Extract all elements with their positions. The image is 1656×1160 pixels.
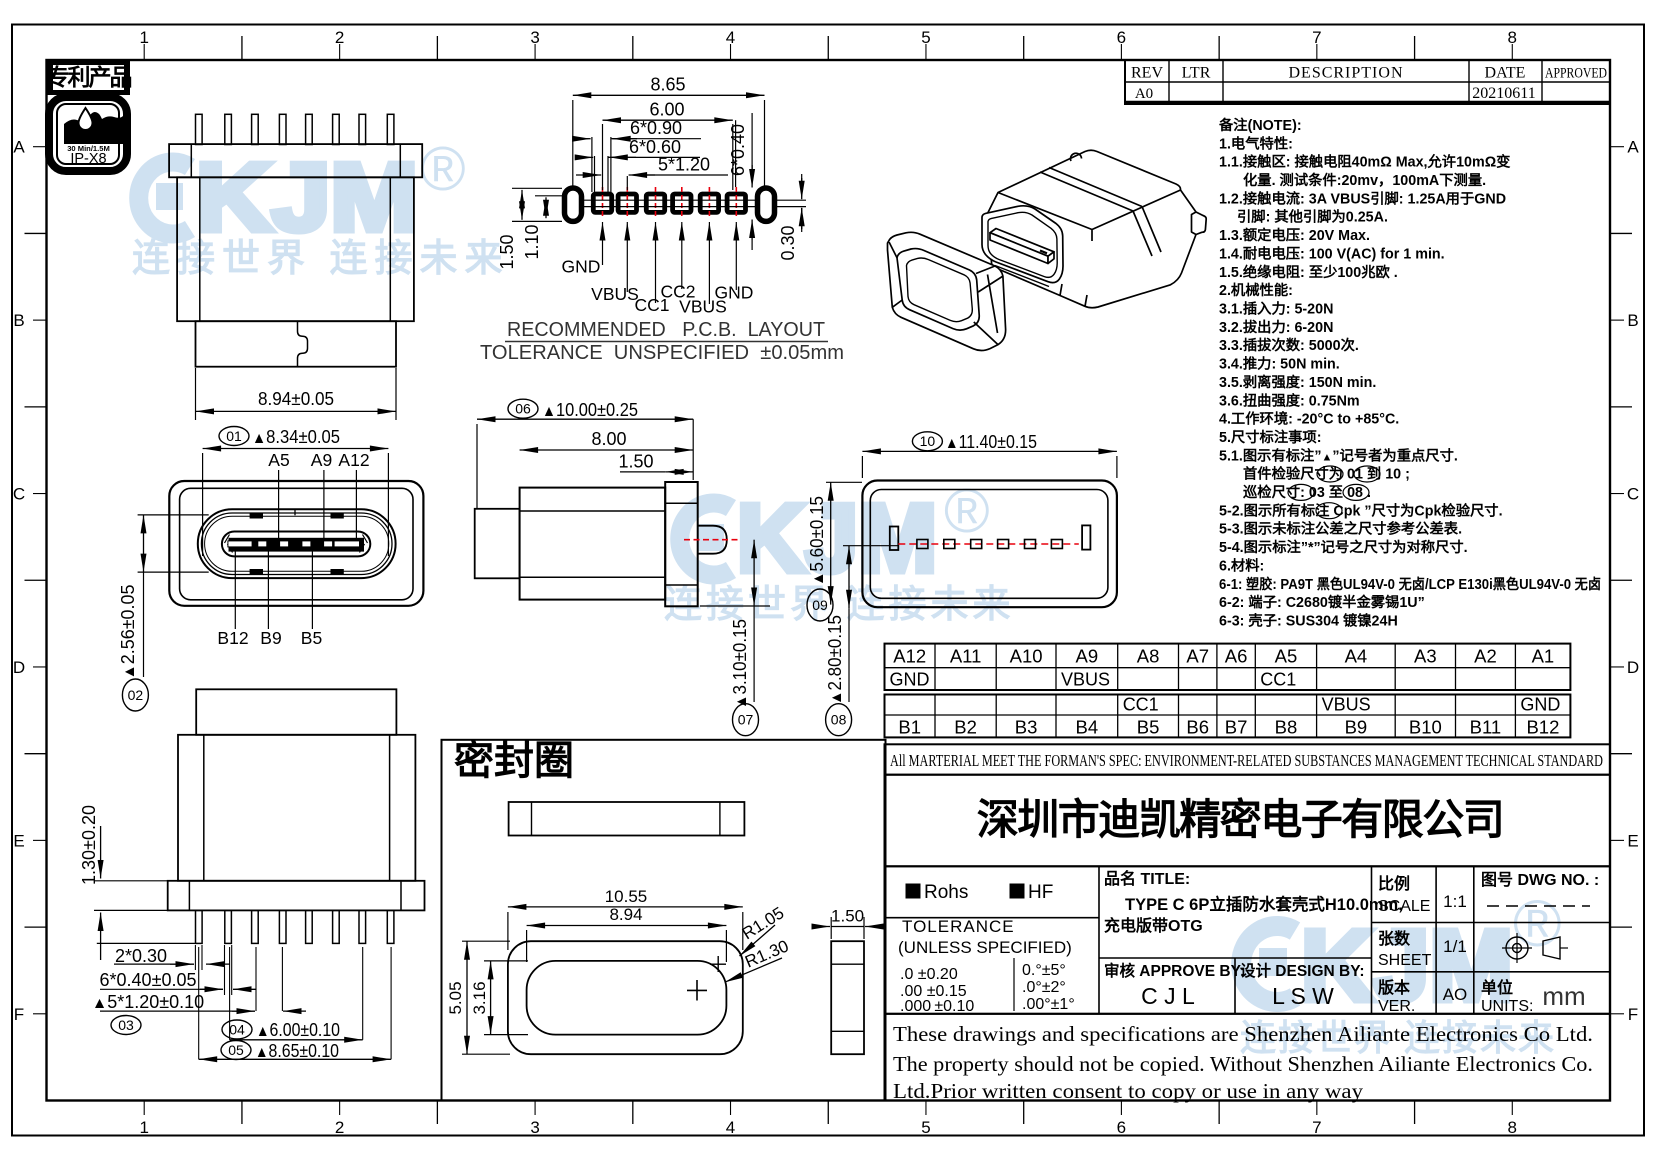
- svg-text:B7: B7: [1225, 717, 1248, 738]
- leader R1.30: [725, 936, 792, 982]
- svg-text:All MARTERIAL MEET THE FORMAN': All MARTERIAL MEET THE FORMAN'S SPEC: EN…: [890, 751, 1603, 770]
- svg-text:1.2.接触电流: 3A VBUS引脚: 1.25A用于GN: 1.2.接触电流: 3A VBUS引脚: 1.25A用于GND: [1219, 189, 1506, 207]
- svg-text:B: B: [1627, 311, 1638, 330]
- svg-text:5.1.图示有标注”▲”记号者为重点尺寸.: 5.1.图示有标注”▲”记号者为重点尺寸.: [1219, 446, 1458, 464]
- svg-text:HF: HF: [1028, 882, 1053, 903]
- seal center crosses: [687, 956, 726, 1001]
- svg-text:▲8.65±0.10: ▲8.65±0.10: [255, 1041, 339, 1061]
- svg-text:B3: B3: [1015, 717, 1038, 738]
- top view: flange: [169, 144, 422, 177]
- svg-text:B6: B6: [1186, 717, 1209, 738]
- svg-text:CC1: CC1: [1260, 670, 1296, 690]
- svg-text:C: C: [13, 485, 25, 504]
- svg-text:APPROVED: APPROVED: [1545, 66, 1607, 82]
- svg-text:F: F: [1628, 1005, 1638, 1024]
- svg-text:5-2.图示所有标注 Cpk ”尺寸为Cpk检验尺寸.: 5-2.图示所有标注 Cpk ”尺寸为Cpk检验尺寸.: [1219, 501, 1503, 519]
- watermark KJM logo top-left: [132, 135, 510, 280]
- revision table: [1125, 60, 1610, 104]
- svg-text:6-2: 端子: C2680镀半金雾锡1U”: 6-2: 端子: C2680镀半金雾锡1U”: [1219, 593, 1425, 611]
- svg-text:TYPE C 6P立插防水套壳式H10.0mm,: TYPE C 6P立插防水套壳式H10.0mm,: [1125, 894, 1403, 914]
- svg-text:.000 ±0.10: .000 ±0.10: [900, 998, 974, 1015]
- svg-text:C J L: C J L: [1141, 983, 1195, 1009]
- bottom view: main body: [178, 735, 415, 881]
- bottom view: 8 pins down: [196, 910, 394, 943]
- svg-text:B10: B10: [1409, 717, 1442, 738]
- svg-text:1:1: 1:1: [1443, 892, 1467, 911]
- dimension 05 ▲8.65±0.10: [199, 947, 391, 1061]
- seal ring section box: [442, 740, 886, 1101]
- svg-text:2: 2: [335, 28, 344, 47]
- 3D isometric: plug rim and tongue: [982, 206, 1063, 287]
- dimension 0.30 vertical: [778, 174, 802, 261]
- svg-text:图号 DWG NO. :: 图号 DWG NO. :: [1481, 871, 1599, 889]
- svg-text:D: D: [1627, 658, 1639, 677]
- svg-text:10: 10: [920, 433, 936, 449]
- dimension 10 ▲11.40±0.15: [862, 432, 1117, 478]
- version cell: [1377, 978, 1467, 1015]
- sheet cell: [1378, 929, 1467, 969]
- dimension 5*1.20: [576, 155, 728, 191]
- svg-text:▲11.40±0.15: ▲11.40±0.15: [945, 432, 1037, 452]
- PCB layout: 6 square pads with red centerlines: [593, 187, 745, 219]
- svg-text:▲6.00±0.10: ▲6.00±0.10: [256, 1020, 340, 1040]
- svg-text:6: 6: [1117, 1118, 1126, 1137]
- svg-text:0.30: 0.30: [778, 225, 798, 260]
- svg-text:1/1: 1/1: [1443, 937, 1467, 956]
- dimension 1.50 vertical (pcb left): [497, 188, 562, 269]
- dimension 3.16 (seal): [470, 961, 528, 1035]
- svg-text:VER.: VER.: [1378, 998, 1415, 1015]
- svg-text:B9: B9: [1345, 717, 1368, 738]
- svg-text:4: 4: [726, 28, 735, 47]
- units cell: [1481, 978, 1586, 1015]
- svg-text:1.10: 1.10: [522, 224, 542, 259]
- svg-text:3.4.推力: 50N min.: 3.4.推力: 50N min.: [1219, 355, 1340, 373]
- svg-text:04: 04: [229, 1021, 245, 1037]
- svg-text:A12: A12: [893, 646, 926, 667]
- svg-text:VBUS: VBUS: [1061, 670, 1110, 690]
- top view: 8 SMT pins: [196, 114, 394, 144]
- svg-text:8.65: 8.65: [650, 74, 685, 94]
- dimension 09 ▲5.60±0.15: [807, 482, 862, 621]
- svg-text:A5: A5: [268, 450, 289, 470]
- svg-text:A1: A1: [1532, 646, 1555, 667]
- svg-text:B9: B9: [260, 628, 281, 648]
- pin assignment table: [885, 644, 1571, 738]
- svg-text:▲8.34±0.05: ▲8.34±0.05: [252, 427, 340, 447]
- svg-text:8.00: 8.00: [591, 429, 626, 449]
- svg-text:AO: AO: [1443, 985, 1468, 1004]
- svg-text:These drawings and specificati: These drawings and specifications are Sh…: [893, 1022, 1593, 1046]
- svg-text:1.50: 1.50: [497, 234, 517, 269]
- top view: bottom shield block with seam: [196, 321, 397, 367]
- svg-text:A0: A0: [1135, 86, 1153, 102]
- svg-text:RECOMMENDED P.C.B. LAYOUT: RECOMMENDED P.C.B. LAYOUT: [507, 319, 825, 341]
- seal ring front view: [508, 941, 743, 1054]
- svg-text:TOLERANCE UNSPECIFIED ±0.05m: TOLERANCE UNSPECIFIED ±0.05mm: [480, 342, 844, 364]
- svg-text:A8: A8: [1137, 646, 1160, 667]
- svg-text:化量. 测试条件:20mv，100mA下测量.: 化量. 测试条件:20mv，100mA下测量.: [1243, 171, 1486, 189]
- svg-text:备注(NOTE):: 备注(NOTE):: [1218, 116, 1302, 134]
- dimension 6*0.40 vertical (pcb pad width): [728, 113, 752, 250]
- title cell 品名 TITLE: [1104, 869, 1403, 935]
- svg-text:审核 APPROVE BY:: 审核 APPROVE BY:: [1104, 961, 1245, 980]
- 3D isometric: connector body: [986, 150, 1206, 308]
- dimension 07 ▲3.10±0.15: [700, 540, 770, 736]
- dimension 06 ▲10.00±0.25: [477, 399, 693, 509]
- svg-text:6.材料:: 6.材料:: [1219, 556, 1264, 574]
- svg-text:3.16: 3.16: [470, 981, 489, 1014]
- svg-text:6*0.40: 6*0.40: [728, 124, 748, 176]
- dimension 01 ▲8.34±0.05: [203, 427, 389, 557]
- svg-text:(UNLESS SPECIFIED): (UNLESS SPECIFIED): [898, 938, 1072, 957]
- svg-text:B12: B12: [217, 628, 248, 648]
- bottom view: top block: [196, 689, 396, 735]
- svg-text:®: ®: [944, 477, 990, 546]
- svg-text:B2: B2: [954, 717, 977, 738]
- svg-text:比例: 比例: [1378, 874, 1410, 893]
- svg-text:.00°±1°: .00°±1°: [1022, 996, 1075, 1013]
- svg-text:6*0.90: 6*0.90: [630, 118, 682, 138]
- svg-text:▲10.00±0.25: ▲10.00±0.25: [542, 400, 638, 420]
- svg-text:03: 03: [118, 1017, 134, 1033]
- patent product label 专利产品: [47, 59, 132, 95]
- svg-text:A6: A6: [1225, 646, 1248, 667]
- svg-text:A5: A5: [1275, 646, 1298, 667]
- svg-text:4: 4: [726, 1118, 735, 1137]
- svg-text:引脚: 其他引脚为0.25A.: 引脚: 其他引脚为0.25A.: [1237, 208, 1388, 226]
- svg-text:A7: A7: [1186, 646, 1209, 667]
- svg-text:®: ®: [420, 135, 466, 204]
- svg-text:3.6.扭曲强度: 0.75Nm: 3.6.扭曲强度: 0.75Nm: [1219, 391, 1360, 409]
- svg-text:A10: A10: [1010, 646, 1043, 667]
- design by cell: [1240, 961, 1365, 1009]
- projection symbol: [1502, 933, 1568, 963]
- svg-text:▲2.56±0.05: ▲2.56±0.05: [118, 585, 138, 680]
- svg-text:GND: GND: [1520, 695, 1560, 715]
- svg-text:E: E: [13, 831, 24, 850]
- svg-text:A: A: [13, 138, 25, 157]
- svg-text:GND: GND: [890, 670, 930, 690]
- svg-text:5.05: 5.05: [446, 981, 465, 1014]
- dimension 02 ▲2.56±0.05 (front view height): [118, 515, 209, 711]
- svg-text:GND: GND: [715, 283, 754, 303]
- svg-text:6*0.40±0.05: 6*0.40±0.05: [100, 970, 197, 990]
- svg-text:D: D: [13, 658, 25, 677]
- dimension 8.00 (side): [520, 429, 694, 450]
- PCB pad signal arrows and labels: [562, 222, 754, 317]
- notes text block 备注(NOTE): [1218, 116, 1601, 630]
- top view: body: [177, 177, 414, 321]
- oval 03: [111, 1016, 141, 1035]
- svg-text:设计 DESIGN BY:: 设计 DESIGN BY:: [1240, 961, 1365, 980]
- company name box 深圳市迪凯精密电子有限公司: [885, 775, 1611, 867]
- svg-text:3: 3: [530, 1118, 539, 1137]
- svg-text:TOLERANCE: TOLERANCE: [902, 917, 1015, 936]
- svg-text:C: C: [1627, 485, 1639, 504]
- PCB layout: left oval pad: [565, 188, 582, 221]
- back view: slots and pins with red centerline: [890, 525, 1091, 550]
- svg-text:1: 1: [139, 1118, 148, 1137]
- dwg no cell: [1481, 871, 1599, 906]
- svg-text:A2: A2: [1474, 646, 1497, 667]
- svg-text:8: 8: [1508, 1118, 1517, 1137]
- svg-text:05: 05: [228, 1042, 244, 1058]
- svg-text:6: 6: [1117, 28, 1126, 47]
- front view: cavity: [198, 509, 396, 578]
- svg-text:01: 01: [226, 428, 242, 444]
- svg-text:首件检验尺寸为 01 到 10 ;: 首件检验尺寸为 01 到 10 ;: [1243, 465, 1410, 483]
- dimension 8.94 (seal): [527, 905, 727, 962]
- dimension 8.94±0.05 (top view width): [196, 368, 397, 420]
- svg-text:5: 5: [921, 1118, 930, 1137]
- svg-text:3: 3: [530, 28, 539, 47]
- svg-text:UNITS:: UNITS:: [1481, 998, 1533, 1015]
- svg-text:Ltd.Prior written consent to c: Ltd.Prior written consent to copy or use…: [893, 1079, 1364, 1103]
- front view: A5 A9 A12 leader labels: [268, 450, 369, 540]
- dimension 1.50 (side flange): [618, 419, 693, 480]
- svg-text:3.2.拔出力: 6-20N: 3.2.拔出力: 6-20N: [1219, 318, 1333, 336]
- dimension 6*0.40±0.05: [100, 945, 256, 995]
- svg-text:5*1.20: 5*1.20: [658, 155, 710, 175]
- svg-text:8: 8: [1508, 28, 1517, 47]
- seal small side view right: [831, 941, 864, 1054]
- svg-text:0.°±5°: 0.°±5°: [1022, 962, 1066, 979]
- svg-text:专利产品: 专利产品: [47, 64, 132, 90]
- watermark KJM logo title block: [1240, 886, 1562, 1058]
- title block grid: [885, 866, 1611, 1014]
- svg-text:A3: A3: [1414, 646, 1437, 667]
- side view: SMT pin with red centerline: [684, 526, 741, 554]
- disclaimer text: [885, 1014, 1611, 1103]
- svg-text:7: 7: [1312, 1118, 1321, 1137]
- svg-text:B8: B8: [1275, 717, 1298, 738]
- svg-text:B11: B11: [1470, 717, 1502, 738]
- dimension 5.05 (seal): [446, 941, 510, 1054]
- svg-text:B12: B12: [1526, 717, 1559, 738]
- svg-text:08: 08: [831, 712, 847, 728]
- dimension 6*0.60: [579, 137, 700, 192]
- svg-text:4.工作环境: -20°C to +85°C.: 4.工作环境: -20°C to +85°C.: [1219, 410, 1399, 428]
- svg-text:连接世界 连接未来: 连接世界 连接未来: [132, 238, 510, 280]
- svg-text:B5: B5: [1137, 717, 1160, 738]
- svg-text:密封圈: 密封圈: [454, 739, 574, 783]
- svg-text:1.50: 1.50: [831, 907, 864, 926]
- Rohs / HF cell: [906, 882, 1053, 903]
- svg-text:A11: A11: [950, 646, 982, 667]
- svg-text:3.5.剥离强度: 150N min.: 3.5.剥离强度: 150N min.: [1219, 373, 1376, 391]
- PCB layout: right oval pad: [758, 188, 775, 221]
- svg-text:07: 07: [738, 712, 754, 728]
- svg-text:DATE: DATE: [1485, 65, 1526, 82]
- svg-text:1.4.耐电电压: 100 V(AC) for 1 min.: 1.4.耐电电压: 100 V(AC) for 1 min.: [1219, 244, 1445, 262]
- svg-text:▲2.80±0.15: ▲2.80±0.15: [825, 615, 845, 705]
- svg-text:mm: mm: [1542, 981, 1585, 1011]
- svg-text:SCALE: SCALE: [1378, 898, 1430, 915]
- svg-text:1.50: 1.50: [618, 451, 653, 471]
- svg-text:B4: B4: [1076, 717, 1099, 738]
- svg-text:1.1.接触区: 接触电阻40mΩ Max,允许10mΩ变: 1.1.接触区: 接触电阻40mΩ Max,允许10mΩ变: [1219, 153, 1511, 171]
- svg-text:5.尺寸标注事项:: 5.尺寸标注事项:: [1219, 428, 1321, 446]
- PCB layout: pad connecting centerline: [582, 200, 807, 206]
- svg-text:B5: B5: [301, 628, 322, 648]
- svg-text:1.3.额定电压: 20V Max.: 1.3.额定电压: 20V Max.: [1219, 226, 1370, 244]
- svg-text:5: 5: [921, 28, 930, 47]
- svg-text:单位: 单位: [1481, 978, 1513, 997]
- svg-text:.0 ±0.20: .0 ±0.20: [900, 966, 958, 983]
- front view: B12 B9 B5 leader labels: [217, 550, 322, 648]
- svg-text:6.00: 6.00: [649, 100, 684, 120]
- watermark KJM logo center: [664, 477, 1015, 626]
- svg-text:06: 06: [515, 401, 531, 417]
- svg-text:10.55: 10.55: [605, 887, 648, 906]
- svg-text:2*0.30: 2*0.30: [115, 946, 167, 966]
- dimension 1.50 (seal side): [812, 907, 883, 939]
- svg-text:2.机械性能:: 2.机械性能:: [1219, 281, 1293, 299]
- dimension 08 ▲2.80±0.15: [825, 546, 898, 736]
- 3D isometric: seal gasket ring: [888, 232, 1006, 350]
- bottom view: flange: [168, 881, 425, 911]
- svg-text:A4: A4: [1345, 646, 1368, 667]
- svg-text:09: 09: [812, 597, 828, 613]
- svg-text:张数: 张数: [1378, 929, 1411, 948]
- tolerance cell: [898, 917, 1075, 1015]
- dimension 2*0.30: [97, 943, 230, 970]
- svg-text:5-3.图示未标注公差之尺寸参考公差表.: 5-3.图示未标注公差之尺寸参考公差表.: [1219, 520, 1462, 538]
- approve by cell: [1104, 961, 1245, 1009]
- svg-text:SHEET: SHEET: [1378, 952, 1432, 969]
- dimension 04 ▲6.00±0.10: [222, 947, 363, 1040]
- side view: mounting flange: [665, 482, 698, 606]
- svg-text:The property should not be cop: The property should not be copied. Witho…: [893, 1052, 1593, 1076]
- svg-text:1.30±0.20: 1.30±0.20: [79, 805, 99, 885]
- svg-text:5-4.图示标注”*”记号之尺寸为对称尺寸.: 5-4.图示标注”*”记号之尺寸为对称尺寸.: [1219, 538, 1468, 556]
- svg-text:▲5*1.20±0.10: ▲5*1.20±0.10: [92, 992, 204, 1012]
- svg-text:8.94±0.05: 8.94±0.05: [258, 389, 334, 409]
- front view: outer shell: [169, 481, 423, 606]
- svg-text:IP-X8: IP-X8: [70, 151, 106, 167]
- svg-text:6-1: 塑胶: PA9T 黑色UL94V-0 无卤/LCP: 6-1: 塑胶: PA9T 黑色UL94V-0 无卤/LCP E130i黑色UL…: [1219, 575, 1601, 593]
- svg-text:A9: A9: [1076, 646, 1099, 667]
- svg-text:DESCRIPTION: DESCRIPTION: [1288, 65, 1403, 82]
- svg-text:深圳市迪凯精密电子有限公司: 深圳市迪凯精密电子有限公司: [977, 796, 1504, 843]
- svg-text:KJM: KJM: [737, 485, 937, 592]
- svg-text:REV: REV: [1131, 65, 1163, 82]
- leader R1.05: [739, 903, 788, 956]
- svg-text:KJM: KJM: [196, 144, 418, 251]
- svg-text:B1: B1: [898, 717, 921, 738]
- svg-text:3.3.插拔次数: 5000次.: 3.3.插拔次数: 5000次.: [1219, 336, 1359, 354]
- svg-text:L S W: L S W: [1272, 983, 1334, 1009]
- svg-text:E: E: [1627, 831, 1638, 850]
- svg-text:02: 02: [128, 687, 144, 703]
- svg-text:6-3: 壳子: SUS304 镀镍24H: 6-3: 壳子: SUS304 镀镍24H: [1219, 612, 1398, 630]
- svg-text:Rohs: Rohs: [924, 882, 968, 903]
- svg-text:8.94: 8.94: [609, 905, 642, 924]
- back view: shell outline: [862, 481, 1117, 608]
- svg-text:B: B: [13, 311, 24, 330]
- svg-text:A9: A9: [311, 450, 332, 470]
- side view: rear cap: [475, 509, 520, 579]
- front view: tongue with contacts: [222, 532, 370, 557]
- svg-text:品名 TITLE:: 品名 TITLE:: [1104, 869, 1190, 888]
- seal ring side bar: [509, 802, 745, 836]
- IP-X8 waterproof badge: [49, 97, 127, 171]
- dimension 10.55 (seal): [508, 887, 743, 950]
- svg-text:VBUS: VBUS: [1322, 695, 1371, 715]
- svg-text:▲3.10±0.15: ▲3.10±0.15: [730, 619, 750, 709]
- svg-text:LTR: LTR: [1182, 65, 1211, 82]
- svg-text:20210611: 20210611: [1472, 85, 1535, 102]
- svg-text:CC1: CC1: [1123, 695, 1159, 715]
- dimension 6.00 (pcb): [603, 100, 733, 191]
- dimension ▲5*1.20±0.10: [92, 947, 306, 1012]
- svg-text:1.电气特性:: 1.电气特性:: [1219, 134, 1293, 152]
- svg-text:1: 1: [139, 28, 148, 47]
- scale cell: [1378, 874, 1467, 915]
- svg-text:1.5.绝缘电阻: 至少100兆欧 .: 1.5.绝缘电阻: 至少100兆欧 .: [1219, 263, 1398, 281]
- dimension 8.65: [573, 74, 765, 186]
- side view: main body: [520, 488, 666, 600]
- svg-text:F: F: [14, 1005, 24, 1024]
- svg-text:GND: GND: [562, 257, 601, 277]
- svg-text:VBUS: VBUS: [591, 284, 639, 304]
- dimension 1.10 vertical (pcb left): [522, 196, 562, 260]
- svg-text:3.1.插入力: 5-20N: 3.1.插入力: 5-20N: [1219, 300, 1333, 318]
- svg-text:充电版带OTG: 充电版带OTG: [1104, 916, 1203, 935]
- svg-text:A12: A12: [338, 450, 369, 470]
- svg-text:.0°±2°: .0°±2°: [1022, 979, 1066, 996]
- svg-text:7: 7: [1312, 28, 1321, 47]
- svg-text:2: 2: [335, 1118, 344, 1137]
- svg-text:A: A: [1627, 138, 1639, 157]
- material spec strip: [885, 744, 1611, 774]
- dimension 6*0.90: [575, 118, 701, 192]
- RECOMMENDED P.C.B. LAYOUT caption: [480, 319, 844, 364]
- dimension 1.30±0.20: [79, 805, 178, 960]
- svg-text:版本: 版本: [1377, 978, 1410, 997]
- svg-text:▲5.60±0.15: ▲5.60±0.15: [807, 496, 827, 586]
